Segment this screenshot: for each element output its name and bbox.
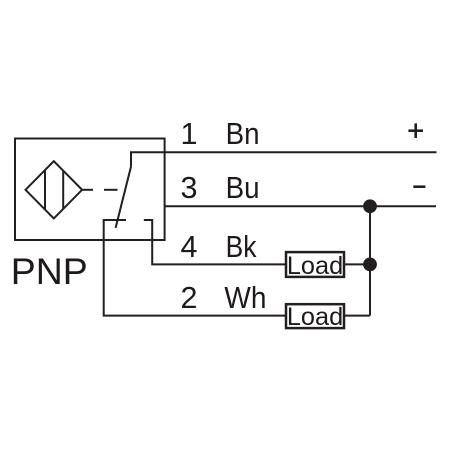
svg-text:Load: Load (287, 252, 343, 280)
svg-text:Bn: Bn (226, 117, 260, 151)
svg-text:Wh: Wh (224, 281, 266, 315)
svg-text:2: 2 (181, 281, 198, 315)
svg-text:Bk: Bk (226, 230, 257, 264)
svg-text:3: 3 (181, 171, 198, 205)
svg-text:4: 4 (181, 230, 198, 264)
svg-text:PNP: PNP (11, 251, 88, 292)
svg-text:Bu: Bu (226, 171, 260, 205)
svg-text:Load: Load (287, 303, 343, 331)
svg-text:1: 1 (181, 117, 198, 151)
